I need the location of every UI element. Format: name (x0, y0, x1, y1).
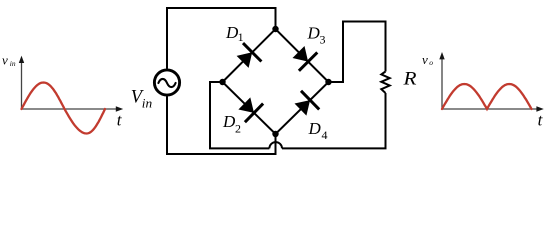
svg-text:D: D (308, 119, 322, 138)
svg-text:3: 3 (320, 33, 326, 47)
svg-text:4: 4 (322, 128, 328, 142)
svg-text:in: in (10, 59, 16, 68)
svg-text:D: D (222, 112, 236, 131)
svg-text:in: in (142, 96, 152, 111)
svg-text:v: v (2, 53, 8, 68)
svg-text:1: 1 (238, 30, 244, 44)
svg-text:o: o (429, 58, 433, 67)
svg-text:R: R (402, 69, 417, 90)
svg-text:D: D (307, 24, 321, 43)
svg-text:2: 2 (235, 122, 241, 136)
svg-text:v: v (422, 52, 428, 67)
